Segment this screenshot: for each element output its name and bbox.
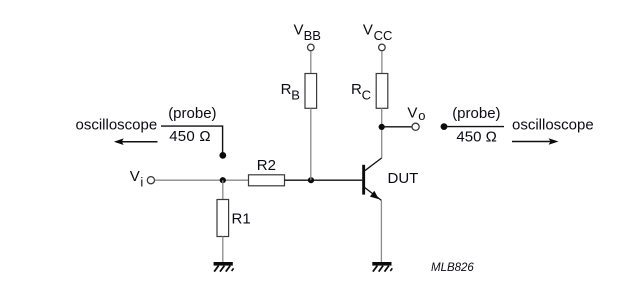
svg-text:BB: BB [304,28,321,43]
wire VBB to RB [310,51,312,73]
transistor DUT [362,158,418,200]
svg-text:450 Ω: 450 Ω [169,128,211,145]
svg-text:oscilloscope: oscilloscope [512,117,594,134]
left arrow to oscilloscope [114,138,158,145]
svg-text:R2: R2 [257,157,276,174]
node Vi terminal circle [147,177,154,184]
right probe divider bar [444,126,504,128]
right arrow to oscilloscope [512,138,559,145]
wire junction to R1 [222,180,224,199]
junction node Vo/collector [379,124,385,130]
svg-text:i: i [140,174,143,189]
node Vo terminal circle [412,123,419,130]
svg-text:450 Ω: 450 Ω [456,129,496,146]
svg-text:R: R [281,81,292,98]
node Vo label [407,104,425,123]
node VBB label [294,22,321,44]
left probe contact dot [219,152,226,159]
svg-text:(probe): (probe) [168,105,216,122]
wire RC to collector [381,108,383,158]
wire RB to base junction [310,108,312,180]
svg-text:DUT: DUT [388,170,419,187]
wire emitter to ground [380,200,382,262]
svg-text:R: R [351,81,362,98]
svg-text:C: C [362,87,371,102]
svg-text:V: V [130,168,140,185]
svg-text:MLB826: MLB826 [431,262,474,274]
svg-text:V: V [407,104,417,121]
ground under emitter [372,262,392,272]
resistor RB [281,74,317,109]
wire collector node to Vo [382,126,412,128]
svg-text:B: B [291,87,300,102]
node VCC label [363,22,392,44]
left probe divider bar and drop wire [161,126,223,153]
resistor R2 [249,157,285,186]
wire R1 to ground [222,237,224,263]
svg-text:CC: CC [374,28,393,43]
node VCC terminal circle [379,44,386,51]
svg-text:oscilloscope: oscilloscope [76,117,158,134]
svg-text:o: o [418,108,425,123]
svg-text:V: V [294,22,304,39]
resistor RC [351,74,388,109]
resistor R1 [217,200,251,237]
svg-text:V: V [363,22,373,39]
ground under R1 [214,262,234,272]
junction node base/RB [308,177,314,183]
wire Vi to R2 [155,179,249,181]
wire VCC to RC [381,51,383,73]
node Vi terminal label [130,168,144,189]
svg-text:R1: R1 [232,211,251,228]
node VBB terminal circle [308,44,315,51]
junction node at Vi/R1 [220,177,226,183]
wire R2 to transistor base [285,179,363,181]
right probe contact dot [441,123,448,130]
svg-text:(probe): (probe) [452,105,500,122]
